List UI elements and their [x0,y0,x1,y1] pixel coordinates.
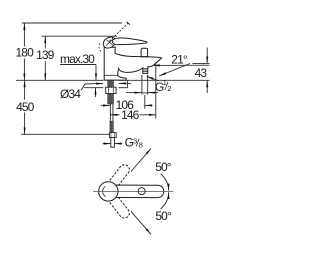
svg-text:3: 3 [133,136,137,145]
50 deg lower arc [161,192,169,209]
svg-text:146: 146 [121,108,140,122]
deck bottom line [84,87,103,89]
faucet body side view [99,22,162,80]
diverter knob [141,48,148,56]
G1/2 leader arrow [147,76,159,81]
svg-text:139: 139 [36,48,55,62]
43 top ext [193,62,210,64]
escutcheon top line [104,74,118,76]
svg-text:2: 2 [167,84,171,93]
dashed handle rotated down [108,194,129,218]
21 degree diagonal w arrow [159,64,190,76]
dimension 139 [44,36,46,80]
small circle on lever [138,188,145,195]
50 deg lower ray [131,211,151,234]
dimension 180 [23,23,25,80]
lever blade [112,38,147,45]
svg-text:1: 1 [163,78,167,87]
dashed arc left of pivot [99,43,101,51]
pivot cap [101,35,118,51]
21 degree horizontal line w arrow [153,64,210,66]
svg-text:50°: 50° [155,209,172,223]
svg-text:180: 180 [16,45,35,59]
svg-text:50°: 50° [155,160,172,174]
dimension 43 [206,48,208,94]
svg-text:8: 8 [139,140,143,149]
dimension 106 [101,95,153,109]
deck top line [16,79,103,81]
threaded shank below deck [108,80,114,104]
svg-text:43: 43 [195,66,208,80]
G3/8 dimension arrows [103,143,122,145]
flexible hose [110,104,113,121]
hose connector nut [109,133,116,138]
svg-text:max.30: max.30 [60,52,95,66]
ext line 139 [42,35,118,37]
hex nut [106,87,116,93]
outlet nipple threads [143,68,148,71]
svg-text:21°: 21° [171,53,188,67]
lever plan body [109,185,164,198]
hose end ext line (450) [21,133,109,135]
50 deg upper arc [161,174,169,191]
G1/2 nipple diameter ext lines + arrows [126,75,158,95]
dashed handle rotated up [108,165,129,189]
G3/8 thread tube [111,138,115,148]
svg-text:450: 450 [16,100,35,114]
dashed raised lever [110,23,129,41]
svg-text:Ø34: Ø34 [60,87,81,101]
ext line top (180) [22,22,122,24]
dimension 450 [24,80,26,134]
centreline [93,190,174,192]
pivot dome [99,182,118,201]
50 deg upper ray [131,148,151,171]
dimension 146 [110,63,155,119]
